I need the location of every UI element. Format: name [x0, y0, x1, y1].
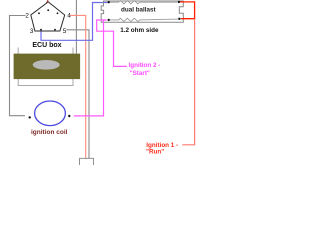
svg-text:ECU box: ECU box [32, 42, 61, 49]
wire: pin 5 down to distributor box (gray) [66, 30, 89, 159]
ECU connector pentagon [31, 2, 65, 31]
svg-text:1: 1 [46, 0, 50, 5]
svg-text:3: 3 [30, 28, 34, 35]
svg-text:"Start": "Start" [130, 70, 150, 77]
pin dots inside connector [38, 9, 58, 30]
wire: ignition 1 run feed down right side (salmon red) [182, 19, 194, 145]
coil positive terminal dot [68, 115, 70, 117]
resistor: ballast top 1.2 ohm element [110, 1, 177, 4]
svg-text:2: 2 [25, 12, 29, 19]
svg-text:ignition coil: ignition coil [31, 129, 68, 136]
ECU box outline rectangle [18, 48, 73, 86]
svg-text:4: 4 [67, 12, 71, 19]
ECU box photo highlight ellipse [33, 60, 60, 70]
dual ballast box outline [101, 1, 183, 22]
svg-text:5: 5 [63, 28, 67, 35]
svg-text:1.2 ohm side: 1.2 ohm side [120, 27, 159, 34]
ignition coil circle [35, 101, 66, 126]
wire: pin 4 down to distributor box (salmon red) [70, 15, 86, 158]
wire: from top edge into ECU box (gray) [75, 0, 77, 54]
coil negative terminal dot [29, 116, 31, 118]
wire: pin 3 to ballast top-left terminal (blue) [41, 3, 107, 41]
svg-text:"Run": "Run" [146, 149, 164, 156]
wire: pink branch down to ignition coil positive [74, 20, 104, 116]
ballast terminal dots [108, 1, 181, 21]
wire: bracket joining ballast right terminals (bright red) [180, 2, 195, 19]
ECU box photo (olive block) [14, 54, 81, 80]
wire: ballast bottom-left terminal to ignition 2 start label (pink) [97, 20, 127, 66]
svg-text:dual ballast: dual ballast [121, 7, 157, 14]
wire: pin 2 to ignition coil negative (gray) [10, 16, 26, 116]
resistor: ballast bottom element [110, 18, 179, 21]
distributor box at bottom [80, 158, 94, 165]
svg-text:Ignition 2 -: Ignition 2 - [129, 62, 161, 69]
